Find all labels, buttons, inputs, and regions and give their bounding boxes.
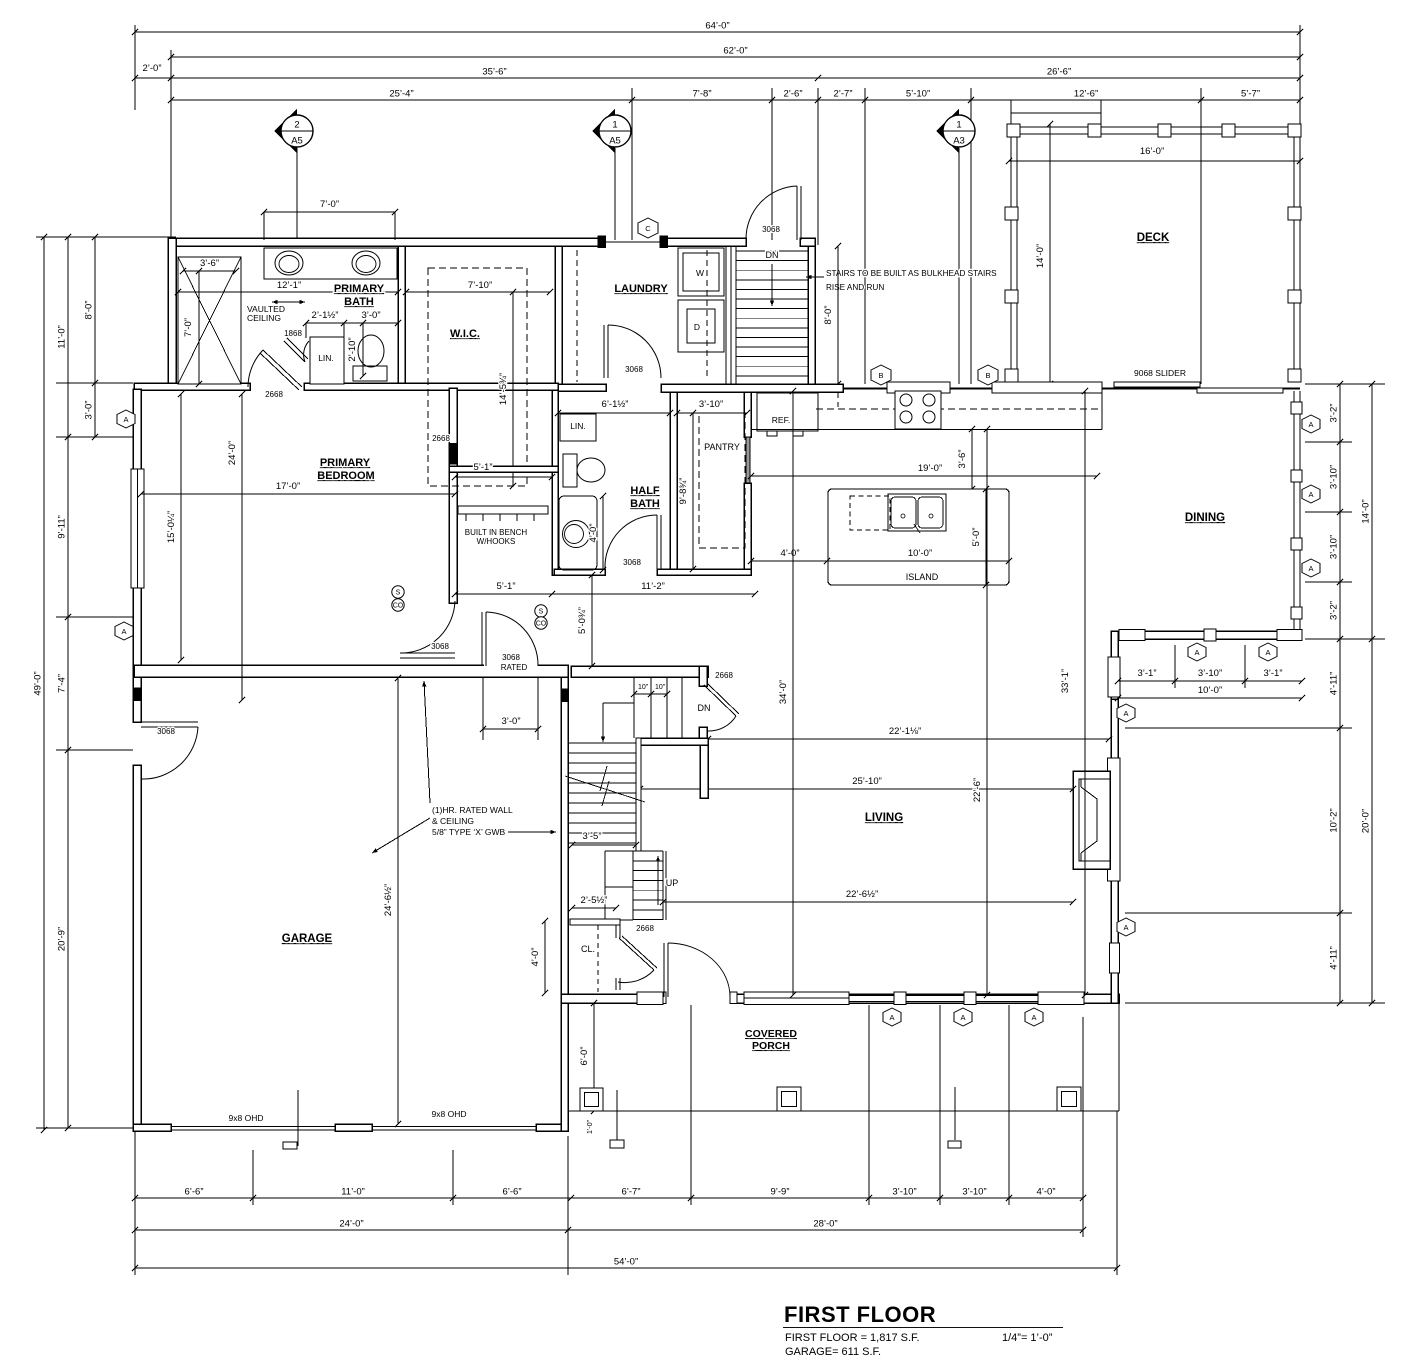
svg-text:COVERED: COVERED — [745, 1028, 797, 1040]
svg-text:STAIRS TO BE BUILT AS BUL: STAIRS TO BE BUILT AS BULKHEAD STAIRS — [826, 269, 997, 278]
door jamb C left — [598, 236, 605, 247]
svg-text:FIRST FLOOR = 1,817 S.F.: FIRST FLOOR = 1,817 S.F. — [785, 1332, 920, 1344]
svg-text:3’-2”: 3’-2” — [1329, 403, 1340, 422]
wall halfbath south B — [657, 569, 751, 575]
door 3068 bedroom swing — [400, 601, 455, 653]
garage mark line 1 — [297, 1090, 299, 1146]
stair upper treads — [633, 677, 635, 738]
svg-text:A: A — [1308, 420, 1313, 429]
svg-text:BATH: BATH — [630, 498, 660, 510]
svg-text:3’-5”: 3’-5” — [582, 831, 601, 842]
extension line — [1305, 581, 1352, 583]
svg-text:8’-0”: 8’-0” — [823, 305, 834, 324]
marker A left 2 — [115, 622, 133, 640]
svg-text:11’-2”: 11’-2” — [641, 581, 665, 592]
section line B — [970, 88, 972, 384]
marker A porch 3 — [1025, 1008, 1043, 1026]
dimension 5'-0 3/4" — [577, 572, 595, 669]
dimension 34'-0" — [778, 388, 796, 998]
svg-text:1/4”= 1’-0”: 1/4”= 1’-0” — [1002, 1332, 1053, 1344]
svg-text:B: B — [878, 371, 883, 380]
fireplace — [1073, 771, 1110, 869]
dimension 9'-11" — [57, 434, 72, 620]
porch post 3 — [1057, 1087, 1081, 1111]
stair dn arrow — [602, 703, 604, 742]
svg-text:ISLAND: ISLAND — [906, 572, 939, 582]
wall stair east (bulkhead) — [808, 246, 815, 390]
wall bath east divider — [398, 246, 405, 384]
section marker 1/A3 drop line — [958, 148, 960, 384]
window post dining east 3 — [1291, 538, 1302, 550]
svg-text:DN: DN — [698, 703, 711, 713]
svg-text:A: A — [1031, 1013, 1036, 1022]
svg-text:2’-0”: 2’-0” — [142, 63, 161, 74]
door C opening sill — [605, 241, 660, 243]
svg-text:A: A — [1308, 490, 1313, 499]
svg-text:2668: 2668 — [715, 671, 733, 680]
pocket door pantry — [746, 437, 750, 483]
svg-text:2668: 2668 — [265, 390, 283, 399]
svg-text:A: A — [1265, 648, 1270, 657]
dimension 24'-0" bedroom — [227, 391, 245, 703]
svg-text:16’-0”: 16’-0” — [1140, 146, 1164, 157]
garage door 9x8 OHD sill 1 — [171, 1126, 335, 1128]
halfbath sink counter — [559, 496, 597, 570]
dimension 7'-4" — [57, 614, 72, 753]
svg-text:& CEILING: & CEILING — [432, 816, 474, 826]
wall garage south A — [133, 1124, 171, 1131]
dimension 25'-10" — [637, 776, 1076, 792]
wall bedroom north A — [134, 383, 250, 390]
svg-text:15’-0¼”: 15’-0¼” — [166, 511, 177, 543]
svg-text:REF.: REF. — [772, 415, 790, 425]
svg-text:UP: UP — [666, 878, 679, 888]
svg-text:22’-6”: 22’-6” — [972, 778, 983, 802]
svg-text:24’-6½”: 24’-6½” — [383, 884, 394, 916]
svg-text:49’-0”: 49’-0” — [33, 671, 44, 695]
marker B 2 — [978, 365, 998, 385]
wall garage west upper — [133, 668, 141, 722]
svg-text:LIVING: LIVING — [865, 812, 903, 824]
svg-text:4’-0”: 4’-0” — [780, 548, 799, 559]
porch post 2 — [777, 1087, 801, 1111]
vanity sink 1 — [275, 251, 303, 275]
door 2668 closet leaf — [619, 938, 654, 970]
marker A dining s 1 — [1188, 643, 1206, 661]
door 3068 laundry swing — [608, 325, 661, 378]
dimension 12'-6" — [968, 89, 1204, 104]
door 2668 bath leaf — [263, 350, 302, 387]
wall living south — [561, 994, 1119, 1003]
svg-text:LIN.: LIN. — [318, 353, 334, 363]
deck post east mid2 — [1288, 290, 1301, 303]
halfbath toilet — [563, 454, 577, 487]
svg-text:GARAGE= 611 S.F.: GARAGE= 611 S.F. — [785, 1346, 881, 1358]
stair east wall stub — [700, 745, 708, 798]
dimension 22'-6" — [972, 426, 990, 998]
deck post — [1158, 124, 1171, 137]
door 1868 leaf — [284, 341, 305, 362]
porch mark line 3 — [954, 1087, 956, 1140]
dimension 16'-0" deck — [1006, 146, 1303, 164]
section line B — [864, 88, 866, 384]
dimension 8'-0" left — [84, 234, 99, 386]
dimension 4'-0" closet — [530, 918, 548, 996]
marker A living e 1 — [1117, 704, 1135, 722]
extension line — [1116, 1111, 1118, 1275]
wall bedroom west — [133, 389, 141, 668]
dimension 4'-11" — [1329, 636, 1344, 731]
extension line vanity — [263, 212, 265, 240]
extension line — [36, 236, 176, 238]
dimension 3'-0" rated door — [480, 716, 541, 732]
svg-text:7’-10”: 7’-10” — [468, 280, 492, 291]
svg-text:6’-7”: 6’-7” — [621, 1187, 640, 1198]
extension line — [1305, 638, 1385, 640]
dimension 15'-0 1/4" — [166, 391, 184, 663]
closet side wall — [615, 925, 617, 938]
svg-text:3’-10”: 3’-10” — [892, 1187, 916, 1198]
dimension 64'-0" overall width — [132, 21, 1303, 36]
extension line — [56, 749, 133, 751]
svg-text:PRIMARY: PRIMARY — [320, 457, 371, 469]
svg-text:5’-10”: 5’-10” — [906, 89, 930, 100]
window post dining south — [1204, 629, 1216, 641]
dimension 20'-0" right — [1361, 636, 1376, 1006]
svg-text:22’-1⅛”: 22’-1⅛” — [889, 726, 921, 737]
deck east rail — [1293, 134, 1295, 382]
svg-text:28’-0”: 28’-0” — [813, 1219, 837, 1230]
svg-text:26’-6”: 26’-6” — [1047, 67, 1071, 78]
dimension 5'-1" WIC — [452, 462, 555, 480]
svg-text:LAUNDRY: LAUNDRY — [614, 283, 668, 295]
deck post — [1088, 124, 1101, 137]
window dining south 1 — [1119, 630, 1145, 641]
svg-text:B: B — [985, 371, 990, 380]
svg-text:20’-0”: 20’-0” — [1361, 809, 1372, 833]
window mull 2 — [964, 992, 976, 1005]
door 3068 rated swing — [486, 612, 538, 666]
svg-text:10’-2”: 10’-2” — [1329, 808, 1340, 832]
svg-text:1’-0”: 1’-0” — [587, 1119, 594, 1134]
doorway gap bedroom south — [484, 664, 538, 671]
svg-text:3’-10”: 3’-10” — [1329, 535, 1340, 559]
wall pantry divider — [670, 390, 677, 569]
window post dining east 1 — [1291, 402, 1302, 414]
dimension 2'-1 1/2" — [303, 310, 347, 326]
marker C — [638, 218, 658, 238]
dimension 9'-9" — [688, 1187, 872, 1202]
closet dashed line — [597, 925, 599, 992]
dimension 3'-6" counter — [957, 426, 975, 492]
extension line — [170, 50, 172, 238]
window dining south 2 — [1277, 630, 1302, 641]
wall living east — [1111, 635, 1118, 1003]
dimension 14'-0" right — [1361, 381, 1376, 642]
title underline — [783, 1327, 1063, 1329]
dimension 35'-6" — [168, 67, 821, 82]
dimension 3'-10" bottom — [866, 1187, 943, 1202]
door 3068 bedroom leaf — [400, 652, 455, 654]
svg-text:4’-0”: 4’-0” — [530, 947, 541, 966]
svg-text:2668: 2668 — [636, 924, 654, 933]
svg-text:D: D — [694, 322, 700, 332]
svg-text:17’-0”: 17’-0” — [276, 481, 300, 492]
front door swing — [668, 943, 730, 997]
svg-text:LIN.: LIN. — [570, 421, 586, 431]
svg-text:CO: CO — [393, 603, 404, 610]
dimension 5'-0" island — [971, 486, 989, 588]
wall fill block rated — [561, 689, 568, 701]
svg-text:10’-0”: 10’-0” — [908, 548, 932, 559]
dishwasher dashed — [850, 496, 890, 530]
dimension 7'-10" — [403, 280, 553, 295]
svg-text:W.I.C.: W.I.C. — [450, 328, 480, 340]
extension line — [817, 88, 819, 245]
extension line — [134, 1131, 136, 1275]
svg-text:A: A — [121, 627, 126, 636]
dimension 3'-10" bottom 2 — [937, 1187, 1012, 1202]
window mull 1 — [894, 992, 906, 1005]
kitchen counter end — [1101, 391, 1103, 430]
dimension 3'-10" right — [1329, 439, 1344, 515]
dimension 6'-6" — [132, 1187, 256, 1202]
extension line — [134, 25, 136, 110]
svg-text:6’-6”: 6’-6” — [502, 1187, 521, 1198]
note arrow low — [372, 818, 430, 853]
wall stair east mid — [699, 727, 707, 738]
dimension 10'-2" — [1329, 725, 1344, 916]
door 2668 stair swing — [707, 716, 736, 731]
wall garage west lower — [133, 765, 141, 1131]
door gap front — [666, 993, 730, 1004]
svg-text:9’-11”: 9’-11” — [57, 515, 68, 539]
section marker 1/A5 — [592, 109, 631, 153]
window post dining east 4 — [1291, 607, 1302, 619]
wall stair east upper — [699, 666, 707, 686]
wall pantry east upper — [744, 390, 751, 437]
wall bedroom north B — [304, 383, 558, 390]
wall bedroom east — [449, 388, 457, 603]
dimension 3'-5" — [569, 831, 639, 848]
dimension 10'-0" dining — [1115, 685, 1305, 701]
marker A dining s 2 — [1259, 643, 1277, 661]
dimension 3'-1" dining — [1115, 668, 1178, 684]
svg-text:11’-0”: 11’-0” — [341, 1187, 365, 1198]
svg-text:2’-1½”: 2’-1½” — [312, 310, 339, 321]
svg-text:S: S — [539, 609, 544, 616]
svg-text:5’-1”: 5’-1” — [473, 462, 492, 473]
island — [828, 489, 1009, 585]
wall bath-laundry divider — [555, 246, 562, 390]
toilet — [353, 366, 387, 381]
extension line — [1125, 1002, 1385, 1004]
window post dining east 2 — [1291, 470, 1302, 482]
dimension 17'-0" — [138, 481, 458, 497]
dimension 2'-5 1/2" — [569, 895, 619, 911]
dimension 6'-6" 2 — [450, 1187, 574, 1202]
slider 9068 panel 2 — [1197, 388, 1283, 393]
svg-text:3’-6”: 3’-6” — [200, 258, 219, 269]
closet X-box — [178, 257, 241, 384]
dimension 14'-5 3/4" — [498, 289, 516, 489]
porch mark rect 2 — [610, 1140, 624, 1148]
front door 3068 leaf — [663, 943, 665, 997]
svg-text:HALF: HALF — [630, 485, 660, 497]
svg-text:2668: 2668 — [432, 434, 450, 443]
svg-text:W: W — [696, 268, 704, 278]
wall laundry south B — [661, 384, 843, 392]
svg-text:3068: 3068 — [157, 727, 175, 736]
svg-text:1: 1 — [612, 120, 617, 131]
dimension 2'-0" — [132, 63, 174, 81]
extension line bath — [343, 323, 345, 384]
wall garage south B — [335, 1124, 372, 1131]
wall fill block garage west — [133, 688, 141, 700]
wall bath west — [168, 238, 176, 390]
svg-text:A: A — [123, 415, 128, 424]
WIC dashed outline — [428, 268, 527, 486]
bulkhead stair arrow — [771, 264, 773, 306]
dimension 3'-10" dining — [1172, 668, 1248, 684]
svg-text:62’-0”: 62’-0” — [723, 46, 747, 57]
dimension 7'-0" closet — [183, 268, 202, 387]
porch post 1 — [580, 1088, 603, 1111]
svg-text:BATH: BATH — [344, 296, 374, 308]
dimension 6'-0" porch door — [579, 1000, 597, 1114]
svg-text:3’-0”: 3’-0” — [84, 400, 95, 419]
section marker 2/A5 drop line — [296, 148, 298, 240]
extension line — [631, 88, 633, 240]
svg-text:19’-0”: 19’-0” — [918, 463, 942, 474]
wall WIC south — [449, 466, 558, 472]
svg-text:A: A — [1308, 564, 1313, 573]
deck post east — [1288, 207, 1301, 220]
svg-text:3’-1”: 3’-1” — [1137, 668, 1156, 679]
note arrow to wall — [508, 831, 556, 833]
svg-text:64’-0”: 64’-0” — [705, 21, 729, 32]
svg-text:22’-6½”: 22’-6½” — [846, 889, 878, 900]
dimension 11'-0" left — [57, 234, 72, 440]
svg-text:9x8 OHD: 9x8 OHD — [432, 1109, 467, 1119]
svg-text:BUILT IN BENCH: BUILT IN BENCH — [465, 528, 528, 537]
wall laundry north — [664, 238, 746, 246]
svg-text:A: A — [1123, 923, 1128, 932]
wall dining sw corner — [1111, 631, 1118, 699]
section marker 1/A5 drop line — [614, 148, 616, 240]
extension line — [56, 436, 133, 438]
extension line dining — [1174, 645, 1176, 688]
svg-text:9’-9”: 9’-9” — [770, 1187, 789, 1198]
dimension 2'-10" — [347, 320, 366, 379]
wall dining south — [1111, 631, 1300, 639]
door 3068 laundry leaf — [603, 325, 605, 378]
refrigerator — [757, 393, 818, 431]
deck post west low — [1005, 369, 1018, 382]
wall laundry south A — [558, 384, 606, 391]
stair up lower box — [604, 851, 606, 920]
svg-text:RATED: RATED — [501, 663, 528, 672]
built-in bench — [458, 506, 548, 514]
porch east edge — [1118, 1003, 1120, 1111]
porch mark rect 3 — [948, 1141, 961, 1148]
dimension 3'-0" toilet — [341, 310, 401, 326]
dimension 2'-6" — [769, 89, 821, 104]
dryer box — [678, 300, 724, 352]
svg-text:7’-8”: 7’-8” — [692, 89, 711, 100]
wall garage south C — [536, 1124, 568, 1131]
svg-text:CL.: CL. — [581, 944, 595, 954]
svg-text:3’-6”: 3’-6” — [957, 449, 968, 468]
extension line dining 2 — [1244, 645, 1246, 688]
svg-text:14’-5¾”: 14’-5¾” — [498, 373, 509, 405]
dimension 6'-7" — [568, 1187, 694, 1202]
bulkhead stair treads — [736, 250, 808, 252]
svg-text:BEDROOM: BEDROOM — [317, 470, 374, 482]
extension line — [690, 1005, 692, 1205]
stair upper dim 10 10 — [634, 693, 667, 695]
wall garage east rated — [561, 677, 568, 1131]
deck west rail — [1010, 134, 1012, 382]
pantry dashed outline — [699, 413, 745, 548]
extension line — [1305, 511, 1352, 513]
dimension 4'-0" bottom — [1006, 1187, 1086, 1202]
dimension 5'-7" — [1198, 89, 1303, 104]
dimension 4'-11" 2 — [1329, 910, 1344, 1006]
smoke detector S — [392, 586, 404, 598]
svg-text:A: A — [1123, 709, 1128, 718]
door 2668 closet swing — [618, 970, 654, 983]
dimension 3'-6" closet — [180, 258, 239, 274]
closet top wall — [570, 919, 620, 925]
svg-text:A5: A5 — [291, 136, 303, 147]
marker A porch 2 — [954, 1008, 972, 1026]
laundry dashed line 2 — [706, 250, 708, 380]
svg-text:12’-1”: 12’-1” — [277, 280, 301, 291]
svg-text:12’-6”: 12’-6” — [1074, 89, 1098, 100]
door 3068 bulkhead swing — [746, 186, 797, 239]
dimension 6'-1 1/2" — [555, 399, 673, 416]
door leaf 2668 WIC — [449, 443, 456, 464]
dimension 3'-10" pantry — [674, 399, 750, 416]
svg-text:W/HOOKS: W/HOOKS — [477, 537, 516, 546]
wall pantry east lower — [744, 483, 751, 569]
extension line — [1200, 88, 1202, 384]
linen closet bath — [310, 337, 344, 384]
dimension 24'-6 1/2" — [383, 675, 401, 1127]
svg-text:54’-0”: 54’-0” — [614, 1257, 638, 1268]
extension line — [1125, 912, 1352, 914]
wall dining east — [1293, 391, 1295, 635]
svg-text:A: A — [1194, 648, 1199, 657]
svg-text:3’-2”: 3’-2” — [1329, 601, 1340, 620]
garage mark rect 1 — [283, 1142, 297, 1149]
extension line — [56, 616, 133, 618]
svg-text:1: 1 — [956, 120, 961, 131]
svg-text:20’-9”: 20’-9” — [57, 927, 68, 951]
stair landing south wall — [636, 738, 708, 745]
dimension 12'-1" — [175, 280, 401, 295]
window bedroom west — [131, 469, 144, 588]
svg-text:6’-0”: 6’-0” — [579, 1046, 590, 1065]
vanity counter — [264, 248, 397, 279]
stair inner wall — [636, 738, 641, 851]
svg-text:3068: 3068 — [502, 653, 520, 662]
dimension 11'-2" — [549, 581, 758, 597]
kitchen counter edge — [751, 429, 1102, 431]
extension line — [1125, 727, 1352, 729]
svg-text:35’-6”: 35’-6” — [482, 67, 506, 78]
